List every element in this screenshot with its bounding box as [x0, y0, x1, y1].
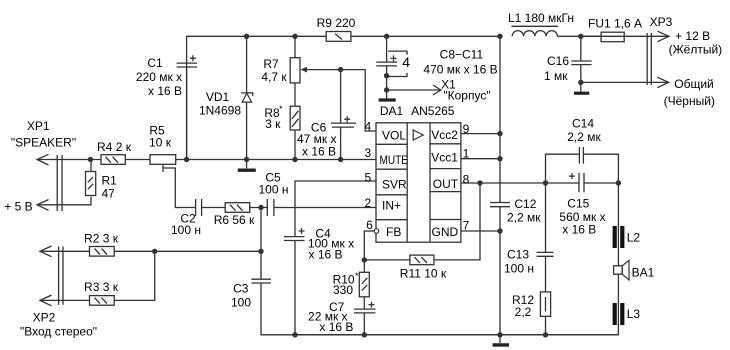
svg-text:Общий: Общий	[674, 77, 714, 91]
wire FU1 to XP3 pin	[624, 35, 669, 37]
wire SVR pin 5 to C4	[295, 181, 376, 237]
ground under C16	[574, 92, 589, 95]
connector XP3	[647, 31, 669, 87]
svg-text:(Жёлтый): (Жёлтый)	[669, 43, 723, 57]
wire R4 to R5	[125, 159, 150, 161]
capacitor C12	[490, 203, 510, 207]
wire R2 to mix node	[114, 250, 155, 252]
wire Vcc1 pin 1	[461, 158, 500, 160]
capacitor C8-C11 bank	[376, 51, 407, 76]
resistor R7 potentiometer	[290, 58, 307, 83]
svg-text:100 н: 100 н	[259, 182, 289, 196]
svg-text:9: 9	[463, 122, 470, 136]
svg-text:VD1: VD1	[206, 90, 230, 104]
svg-text:100 н: 100 н	[504, 262, 534, 276]
svg-text:+ 12 В: + 12 В	[675, 29, 710, 43]
wire C16 branch	[580, 36, 582, 61]
wire VD1 branch	[246, 36, 248, 93]
wire R6 to input node	[250, 207, 268, 209]
svg-text:4: 4	[402, 54, 410, 70]
node R12 bottom rail junction	[543, 332, 548, 337]
svg-text:3 к: 3 к	[265, 117, 281, 131]
wire XP1 +5V pin to R1	[37, 197, 91, 205]
svg-text:470 мк x 16 В: 470 мк x 16 В	[423, 63, 497, 77]
wire R3 to mix node	[114, 251, 155, 300]
svg-text:1 мк: 1 мк	[544, 69, 568, 83]
wire R2R3 mix node to C3	[155, 250, 261, 252]
svg-text:BA1: BA1	[632, 266, 655, 280]
node VD1 MUTE line junction	[244, 157, 249, 162]
ground bottom rail	[493, 335, 510, 345]
capacitor C13	[537, 252, 554, 256]
wire C13 to R12	[545, 257, 547, 292]
wire bottom rail mid	[295, 334, 618, 336]
wire C12 to GND pin 7	[499, 207, 501, 335]
fuse FU1	[601, 32, 624, 42]
capacitor C14	[579, 147, 583, 164]
wire R10 to C7	[363, 297, 365, 309]
resistor R9	[326, 32, 351, 42]
ground under C8-C11	[379, 98, 396, 101]
wire C2 to R6	[202, 207, 226, 209]
resistor R10	[359, 272, 369, 297]
wire XP2 R3 row	[40, 299, 90, 301]
wire R1 top	[90, 160, 92, 172]
speaker BA1	[614, 260, 629, 280]
svg-text:х 16 В: х 16 В	[562, 223, 596, 237]
svg-text:2,2: 2,2	[515, 305, 532, 319]
svg-text:GND: GND	[432, 225, 459, 239]
IC DA1 left cell dividers	[376, 144, 407, 219]
node C6 MUTE line junction	[338, 157, 343, 162]
wire FB pin 6 to R10 node	[364, 231, 374, 272]
svg-text:C14: C14	[572, 116, 594, 130]
node C8 bracket junction	[384, 73, 389, 78]
svg-text:R4 2 к: R4 2 к	[97, 140, 132, 154]
svg-text:C3: C3	[233, 281, 249, 295]
node Vcc2 rail junction	[497, 131, 502, 136]
svg-text:1: 1	[463, 147, 470, 161]
svg-text:1N4698: 1N4698	[199, 103, 241, 117]
node XP1 R1 junction	[88, 157, 93, 162]
capacitor C4	[284, 228, 305, 241]
svg-text:L3: L3	[627, 307, 641, 321]
wire C6 to MUTE line	[340, 127, 342, 159]
wire C14 loop	[546, 154, 580, 183]
node FB R11 R10 junction	[362, 257, 367, 262]
wire C6 branch top	[340, 70, 342, 123]
svg-text:C13: C13	[507, 247, 529, 261]
svg-text:100 н: 100 н	[171, 223, 201, 237]
ferrite bead L2	[615, 226, 623, 248]
node ground bottom rail junction	[497, 332, 502, 337]
node input C5 junction	[258, 205, 263, 210]
node C4 bottom rail junction	[292, 332, 297, 337]
wire R5 wiper tap	[162, 164, 164, 172]
svg-text:+ 5 В: + 5 В	[4, 200, 32, 214]
capacitor C2	[196, 199, 202, 216]
svg-text:AN5265: AN5265	[411, 104, 455, 118]
svg-text:(Чёрный): (Чёрный)	[664, 94, 715, 108]
node C8 X1 junction	[384, 87, 389, 92]
node OUT zobel junction	[543, 180, 548, 185]
capacitor C15	[569, 173, 584, 193]
node OUT speaker junction	[616, 180, 621, 185]
node C8 top rail junction	[384, 34, 389, 39]
wire XP3 common row	[581, 81, 669, 83]
pin 6 circle	[374, 229, 379, 234]
wire GND pin 7	[461, 230, 500, 232]
wire Vcc rail from top	[499, 36, 501, 202]
svg-text:х 16 В: х 16 В	[319, 320, 353, 334]
svg-text:L2: L2	[627, 231, 641, 245]
svg-text:220 мк х: 220 мк х	[136, 70, 182, 84]
node GND pin C12 junction	[497, 228, 502, 233]
node C6 R7 wiper junction	[338, 67, 343, 72]
svg-text:OUT: OUT	[433, 177, 459, 191]
wire C5 to IN+ pin 2	[274, 207, 376, 209]
capacitor C1	[177, 55, 198, 67]
svg-text:FU1 1,6 А: FU1 1,6 А	[588, 17, 642, 31]
wire C13 R12 branch	[545, 183, 547, 252]
svg-text:8: 8	[463, 172, 470, 186]
svg-text:2,2 мк: 2,2 мк	[567, 130, 601, 144]
svg-text:R2 3 к: R2 3 к	[84, 231, 119, 245]
svg-text:2,2 мк: 2,2 мк	[507, 210, 541, 224]
svg-text:7: 7	[463, 219, 470, 233]
wire input node down to R2R3 node	[260, 208, 262, 252]
node C7 bottom rail junction	[362, 332, 367, 337]
svg-text:"SPEAKER": "SPEAKER"	[11, 135, 76, 149]
wire R7 to R8	[294, 83, 296, 107]
svg-text:47: 47	[102, 187, 116, 201]
connector XP1	[37, 154, 62, 211]
svg-text:3: 3	[364, 146, 371, 160]
svg-text:4,7 к: 4,7 к	[261, 70, 287, 84]
node VD1 top rail junction	[244, 34, 249, 39]
svg-text:MUTE: MUTE	[380, 153, 409, 167]
wire C3 to bottom rail	[261, 283, 295, 335]
svg-text:Vcc1: Vcc1	[431, 151, 458, 165]
svg-text:XP1: XP1	[27, 119, 50, 133]
wire C4 to bottom rail	[294, 241, 296, 335]
svg-text:330: 330	[333, 283, 353, 297]
svg-text:5: 5	[364, 171, 371, 185]
svg-text:*: *	[355, 271, 359, 281]
svg-text:DA1: DA1	[380, 104, 404, 118]
resistor R5 trimmer	[150, 155, 176, 165]
capacitor C16	[571, 61, 591, 65]
wire OUT pin 8 line	[461, 182, 579, 184]
svg-text:4: 4	[364, 120, 371, 134]
resistor R1	[86, 172, 96, 196]
wire C14 right to speaker node	[583, 154, 618, 183]
wire R12 to bottom rail	[545, 316, 547, 335]
svg-text:R1: R1	[102, 173, 118, 187]
IC DA1 outline	[376, 123, 461, 242]
wire speaker branch to L2	[617, 183, 619, 266]
svg-text:х 16 В: х 16 В	[308, 248, 342, 262]
ground under VD1	[238, 160, 256, 171]
wire C8 to ground node	[386, 66, 388, 99]
wire R5 wiper to C2	[163, 168, 196, 208]
svg-text:6: 6	[366, 218, 373, 232]
wire BA1 to L3 and bottom rail	[295, 274, 618, 335]
wire XP2 R2 row	[40, 250, 90, 252]
IC DA1 right cell dividers	[430, 144, 461, 220]
resistor R2	[90, 247, 115, 257]
inductor L1	[512, 26, 559, 36]
svg-text:VOL: VOL	[382, 129, 406, 143]
wire C1 to MUTE line	[186, 67, 188, 160]
svg-text:*: *	[279, 104, 283, 114]
wire R11 to OUT node	[434, 183, 480, 260]
svg-text:100: 100	[231, 295, 251, 309]
wire top supply rail left segment	[187, 36, 327, 159]
node R2 R3 mix junction	[152, 249, 157, 254]
node L1 Vcc top rail junction	[497, 34, 502, 39]
svg-text:R11 10 к: R11 10 к	[400, 267, 447, 281]
svg-text:"Корпус": "Корпус"	[443, 89, 490, 103]
resistor R6	[225, 203, 250, 213]
wire FB node to R11	[364, 259, 410, 261]
node C16 common junction	[578, 80, 583, 85]
wire R8 to MUTE line	[294, 130, 296, 160]
svg-text:SVR: SVR	[382, 178, 407, 192]
resistor R12	[540, 292, 550, 316]
wire C16 to ground and XP3 common	[580, 65, 582, 92]
wire R5 to MUTE pin 3	[176, 159, 376, 161]
capacitor C6	[331, 116, 356, 127]
svg-text:L1 180 мкГн: L1 180 мкГн	[508, 11, 574, 25]
node C3 junction	[258, 249, 263, 254]
node C1 MUTE line junction	[184, 157, 189, 162]
wire R7 wiper to VOL pin 4	[307, 70, 377, 131]
svg-text:х 16 В: х 16 В	[302, 145, 336, 159]
resistor R8	[290, 106, 300, 130]
ferrite bead L3	[615, 303, 623, 325]
svg-text:FB: FB	[386, 225, 401, 239]
svg-text:R3 3 к: R3 3 к	[84, 280, 119, 294]
svg-text:C8−C11: C8−C11	[440, 48, 484, 62]
node OUT R11 junction	[477, 180, 482, 185]
wire Vcc2 pin 9	[461, 133, 500, 135]
svg-text:Vcc2: Vcc2	[431, 128, 458, 142]
wire X1 arrow shaft	[387, 89, 441, 91]
svg-text:IN+: IN+	[382, 199, 401, 213]
node C16 top rail junction	[578, 34, 583, 39]
connector X1 arrow	[433, 85, 441, 95]
svg-text:10 к: 10 к	[149, 135, 172, 149]
wire input node to C3	[260, 251, 262, 279]
svg-text:XP2: XP2	[33, 310, 56, 324]
capacitor C5	[267, 199, 274, 216]
svg-text:C16: C16	[547, 54, 569, 68]
svg-text:х 16 В: х 16 В	[148, 84, 182, 98]
wire VD1 anode to MUTE line	[246, 102, 248, 159]
svg-text:2: 2	[364, 196, 371, 210]
wire top rail L1 to C16 node	[558, 35, 602, 37]
capacitor C7	[354, 302, 376, 313]
connector XP2	[40, 246, 63, 306]
svg-text:"Вход стерео": "Вход стерео"	[20, 324, 97, 338]
resistor R3	[90, 296, 115, 306]
zener diode VD1	[241, 93, 253, 102]
svg-text:C15: C15	[567, 197, 589, 211]
resistor R4	[101, 155, 125, 165]
wire MUTE line XP1 to R4	[37, 159, 101, 161]
svg-text:C1: C1	[147, 56, 163, 70]
IC DA1 amp triangle	[413, 130, 423, 140]
wire top supply rail mid segment R9 to C8 node	[351, 35, 500, 37]
svg-text:R6 56 к: R6 56 к	[214, 213, 255, 227]
svg-text:R9 220: R9 220	[317, 16, 356, 30]
node Vcc1 rail junction	[497, 156, 502, 161]
capacitor C3	[251, 279, 271, 283]
node R7 top rail junction	[292, 34, 297, 39]
wire R7 R8 branch	[294, 36, 296, 57]
wire C8 branch	[386, 36, 388, 62]
resistor R11	[410, 255, 434, 265]
wire C16 node to FU1	[581, 35, 601, 37]
wire C7 to bottom rail	[363, 313, 365, 335]
wire C15 to speaker branch	[584, 182, 619, 184]
svg-text:C12: C12	[514, 197, 536, 211]
svg-text:ХР3: ХР3	[650, 15, 673, 29]
node R8 MUTE line junction	[292, 157, 297, 162]
